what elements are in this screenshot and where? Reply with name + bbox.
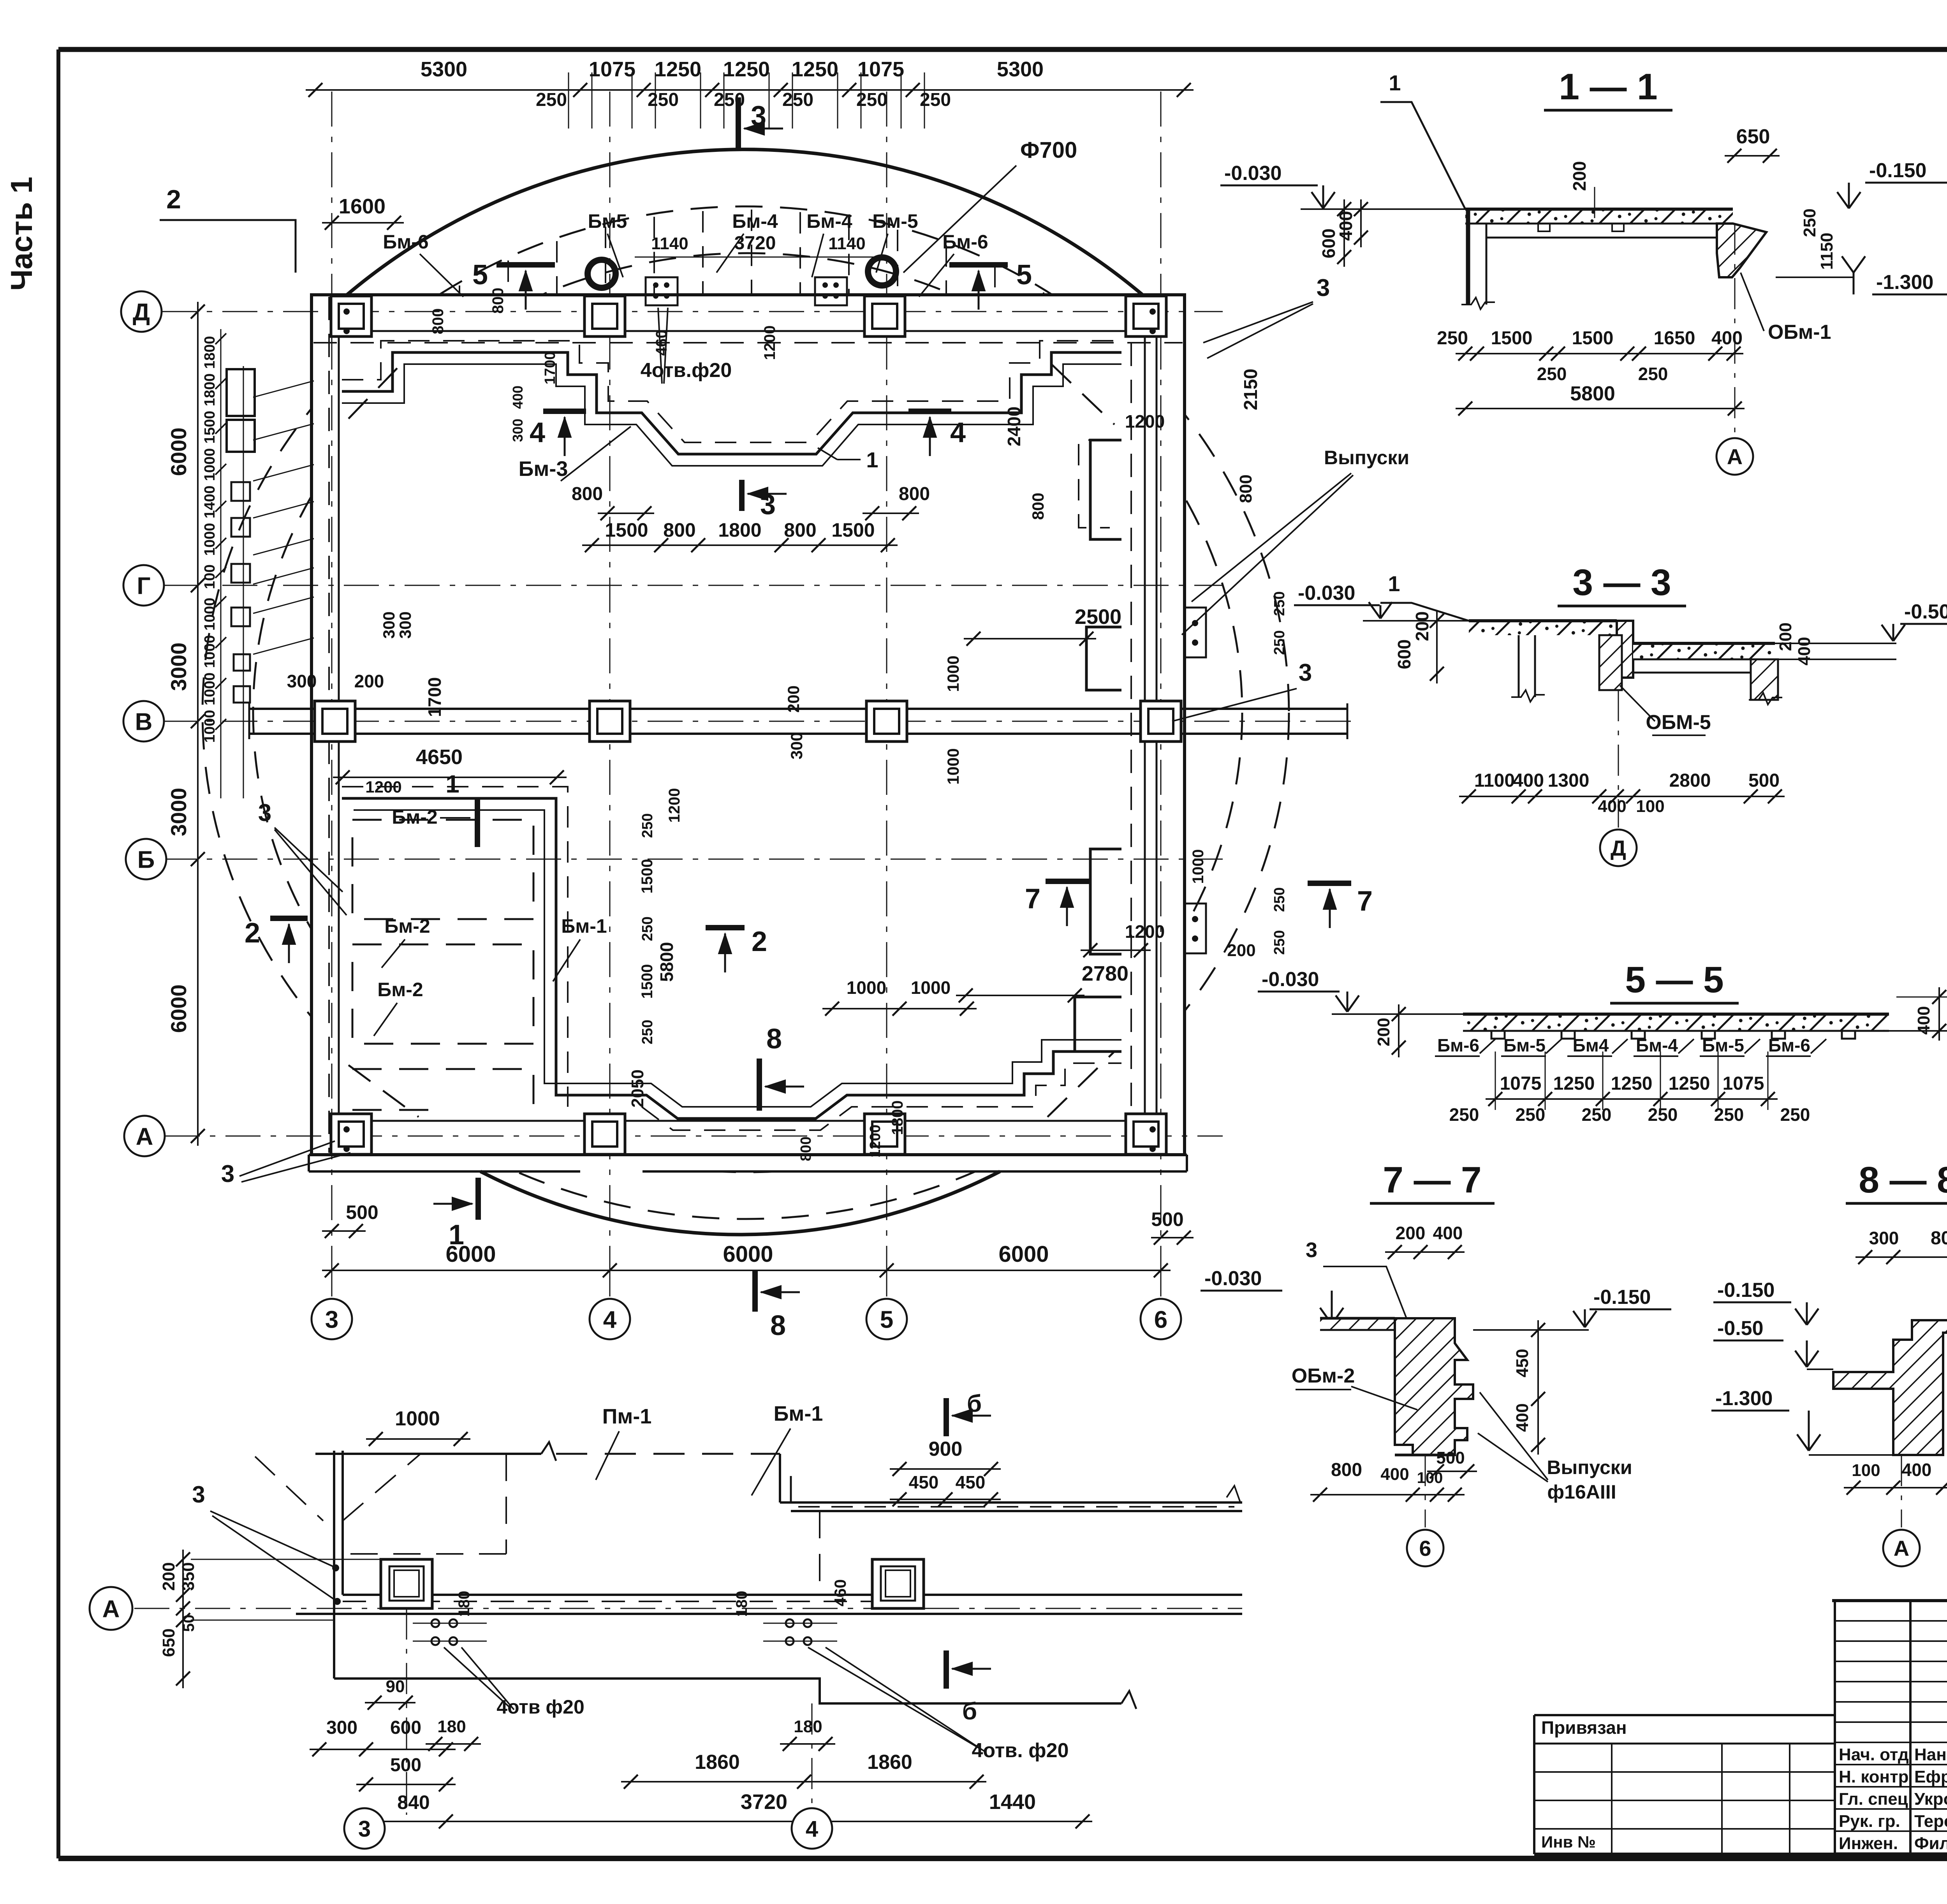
svg-text:1250: 1250 (1553, 1073, 1595, 1094)
svg-text:800: 800 (1931, 1228, 1947, 1249)
svg-text:3720: 3720 (741, 1790, 787, 1814)
plan: bottom foundation strip (309, 1154, 580, 1156)
plan: section flag 7 right (1308, 881, 1351, 886)
section 3-3 upper slab (1469, 621, 1617, 635)
svg-text:6000: 6000 (166, 985, 191, 1033)
svg-text:400: 400 (1711, 328, 1743, 349)
svg-text:650: 650 (159, 1628, 178, 1657)
svg-text:200: 200 (784, 685, 803, 713)
svg-text:200: 200 (354, 671, 384, 691)
svg-text:200: 200 (1374, 1018, 1393, 1046)
svg-text:3: 3 (258, 800, 271, 826)
svg-text:1200: 1200 (867, 1125, 884, 1158)
plan: section flag 2 middle (706, 925, 745, 930)
svg-text:8: 8 (766, 1023, 782, 1055)
section 7-7 main column ОБм-2 (1395, 1318, 1473, 1455)
detail: dashed inner outline (343, 1454, 506, 1554)
section 8-8 axis bubble А (1901, 1455, 1902, 1527)
svg-text:1500: 1500 (639, 964, 656, 999)
svg-text:500: 500 (1748, 770, 1780, 791)
svg-text:1200: 1200 (666, 788, 683, 823)
plan: column on axis Д at grid 6 (1126, 296, 1166, 336)
svg-text:1075: 1075 (1723, 1073, 1764, 1094)
svg-text:350: 350 (179, 1562, 198, 1590)
svg-text:1500: 1500 (1491, 328, 1533, 349)
plan: left wall niche leader ticks (253, 381, 314, 397)
svg-text:Бм-4: Бм-4 (806, 210, 852, 232)
svg-text:5800: 5800 (1570, 382, 1615, 405)
svg-text:250: 250 (1437, 328, 1468, 349)
svg-text:500: 500 (346, 1201, 378, 1223)
svg-text:1700: 1700 (542, 352, 558, 385)
section 5-5 slab with ribs (1463, 1014, 1889, 1031)
svg-text:1000: 1000 (202, 598, 218, 631)
svg-text:5: 5 (472, 259, 488, 291)
plan: axis bubble 6 (bottom) (1141, 1299, 1181, 1339)
svg-text:3: 3 (1317, 275, 1330, 301)
svg-text:Б: Б (137, 846, 155, 873)
svg-text:5300: 5300 (997, 58, 1044, 81)
svg-text:Привязан: Привязан (1541, 1717, 1627, 1738)
svg-text:-0.030: -0.030 (1224, 162, 1282, 185)
plan: axis bubble А (124, 1116, 165, 1156)
svg-text:Бм-2: Бм-2 (384, 915, 430, 937)
svg-text:4: 4 (603, 1306, 617, 1333)
svg-text:1860: 1860 (695, 1751, 740, 1774)
svg-text:5300: 5300 (421, 58, 467, 81)
detail: section flag б bottom (944, 1650, 949, 1689)
svg-text:8: 8 (770, 1310, 786, 1341)
svg-text:200: 200 (1396, 1223, 1426, 1243)
plan: section flag 5 top-left (496, 262, 555, 268)
svg-text:Ф700: Ф700 (1020, 137, 1077, 163)
svg-text:Бм-2: Бм-2 (392, 806, 437, 828)
svg-text:800: 800 (784, 519, 816, 541)
svg-text:1700: 1700 (424, 677, 445, 717)
plan: corner chamfer dashed lines (349, 1065, 419, 1117)
svg-text:1000: 1000 (202, 673, 218, 706)
svg-text:Д: Д (133, 299, 150, 326)
svg-text:А: А (1894, 1536, 1909, 1561)
plan: grid axis column 4 (609, 92, 611, 1303)
svg-text:Бм-3: Бм-3 (519, 457, 568, 481)
svg-text:4: 4 (530, 417, 545, 448)
plan: column on axis В at grid 4 (590, 701, 630, 742)
section 1-1 axis bubble А (1734, 224, 1736, 436)
plan: section flag 7 left (1046, 879, 1090, 884)
section 1-1 inner line (1486, 237, 1692, 239)
plan: grid axis row А (165, 1136, 1223, 1137)
plan: section flag 4 left (543, 409, 586, 414)
svg-text:250: 250 (639, 916, 656, 941)
svg-text:3720: 3720 (734, 233, 776, 254)
svg-text:100: 100 (1852, 1461, 1880, 1480)
plan: column on axis В at grid 3 (315, 701, 355, 742)
svg-text:250: 250 (1638, 364, 1668, 384)
svg-text:Бм-4: Бм-4 (732, 210, 778, 232)
svg-text:1150: 1150 (1817, 232, 1836, 269)
svg-text:5 — 5: 5 — 5 (1625, 959, 1723, 1000)
svg-text:6000: 6000 (998, 1242, 1049, 1267)
plan: right wall extra lines (1144, 333, 1146, 1122)
svg-text:Укропова: Укропова (1914, 1790, 1947, 1809)
svg-text:250: 250 (639, 1020, 656, 1044)
svg-text:Пм-1: Пм-1 (602, 1405, 652, 1428)
svg-text:300: 300 (787, 732, 806, 759)
svg-text:3: 3 (1299, 659, 1312, 686)
svg-text:5: 5 (880, 1306, 893, 1333)
svg-text:2150: 2150 (1241, 369, 1261, 410)
section 3-3 left legs (1518, 635, 1520, 697)
svg-text:1250: 1250 (723, 58, 770, 81)
section 1-1 bottom dimension chains (1456, 353, 1743, 354)
plan: right wall outside boxes with dots (1185, 608, 1206, 657)
svg-text:3: 3 (760, 489, 776, 520)
section 1-1 slab (1465, 209, 1733, 224)
title block: outer top line (1832, 1599, 1947, 1602)
svg-text:4: 4 (806, 1816, 818, 1842)
svg-text:800: 800 (899, 484, 930, 504)
detail: bottom edge with step (334, 1679, 1121, 1703)
svg-text:1000: 1000 (202, 710, 218, 743)
svg-text:Г: Г (137, 572, 150, 599)
plan: interior dim row 1500 800 1800 800 1500 (582, 544, 898, 546)
svg-text:4отв. ф20: 4отв. ф20 (972, 1739, 1069, 1762)
svg-text:1 — 1: 1 — 1 (1559, 66, 1657, 107)
detail: dashed diagonals top-left (255, 1457, 323, 1521)
svg-text:300: 300 (510, 419, 526, 442)
svg-text:1000: 1000 (944, 655, 962, 692)
title block: tall signature table (1834, 1601, 1836, 1854)
svg-text:Ефремова: Ефремова (1914, 1767, 1947, 1786)
plan: Бм-2 dashed floor panels bottom-left (352, 820, 533, 919)
svg-text:400: 400 (1795, 637, 1814, 665)
svg-text:840: 840 (397, 1791, 430, 1813)
svg-text:300: 300 (396, 611, 414, 639)
svg-text:7: 7 (1025, 883, 1040, 914)
plan: top wall inner dashed line (313, 342, 1183, 343)
svg-text:1800: 1800 (202, 336, 218, 369)
svg-text:1000: 1000 (944, 748, 962, 784)
plan: grid axis row Б (162, 859, 1223, 860)
plan: section flag 4 right (908, 409, 951, 414)
svg-text:Нанкаускас: Нанкаускас (1914, 1745, 1947, 1764)
svg-text:800: 800 (1029, 493, 1047, 520)
plan: axis bubble 4 (bottom) (590, 1299, 630, 1339)
svg-text:Филиппов: Филиппов (1914, 1834, 1947, 1853)
plan: grid axis row Д (162, 311, 1223, 312)
svg-text:Инжен.: Инжен. (1839, 1834, 1898, 1853)
svg-text:1500: 1500 (605, 519, 648, 541)
svg-text:1000: 1000 (847, 978, 886, 998)
svg-text:1400: 1400 (202, 486, 218, 519)
svg-text:250: 250 (639, 813, 656, 838)
plan: top dimension 250 row (568, 72, 569, 129)
svg-text:180: 180 (733, 1591, 750, 1617)
svg-text:1000: 1000 (202, 448, 218, 481)
svg-text:ОБм-2: ОБм-2 (1292, 1365, 1355, 1387)
detail: right column square (872, 1559, 924, 1608)
svg-text:1200: 1200 (365, 778, 401, 796)
svg-text:400: 400 (1513, 770, 1544, 791)
svg-text:2050: 2050 (628, 1069, 647, 1108)
svg-text:1600: 1600 (339, 195, 386, 218)
svg-text:3: 3 (325, 1306, 338, 1333)
plan: upper chamber inner wall ring (solid double line) (342, 352, 1121, 454)
svg-text:4650: 4650 (416, 745, 463, 769)
svg-text:1440: 1440 (989, 1790, 1036, 1814)
svg-text:1800: 1800 (718, 519, 761, 541)
svg-text:1500: 1500 (831, 519, 875, 541)
svg-text:200: 200 (1227, 941, 1255, 960)
svg-text:800: 800 (663, 519, 695, 541)
svg-text:100: 100 (1636, 797, 1664, 816)
svg-text:200: 200 (1412, 611, 1432, 641)
svg-text:А: А (1727, 444, 1743, 469)
detail: vertical wall at grid 3 (333, 1451, 335, 1679)
svg-text:Бм4: Бм4 (1573, 1035, 1609, 1055)
plan: lower chamber dashed companion (342, 787, 1121, 1130)
detail: bolt group right (786, 1619, 794, 1627)
svg-text:250: 250 (1449, 1104, 1479, 1125)
svg-text:А: А (136, 1123, 153, 1150)
detail: left column square (381, 1559, 432, 1608)
detail: axis bubbles 3 and 4 (364, 1808, 365, 1821)
svg-text:200: 200 (159, 1562, 178, 1590)
plan: axis bubble Б (126, 839, 166, 879)
svg-text:1: 1 (1389, 70, 1401, 95)
svg-text:Бм-1: Бм-1 (774, 1402, 823, 1425)
svg-text:180: 180 (456, 1591, 473, 1617)
svg-text:600: 600 (1394, 639, 1414, 669)
plan: middle wall on axis В (249, 708, 1347, 710)
plan: column on axis В at grid 5 (866, 701, 907, 742)
plan: grid axis row В (162, 721, 1359, 722)
svg-text:250: 250 (1271, 591, 1288, 616)
svg-text:800: 800 (1331, 1460, 1362, 1480)
plan: grid axis column 6 (1160, 92, 1162, 1303)
svg-text:Выпуски: Выпуски (1547, 1457, 1632, 1478)
svg-text:400: 400 (1433, 1223, 1463, 1243)
svg-text:1: 1 (445, 770, 459, 798)
svg-text:250: 250 (1780, 1104, 1810, 1125)
svg-text:180: 180 (437, 1717, 466, 1736)
svg-text:-1.300: -1.300 (1876, 271, 1933, 294)
svg-text:250: 250 (856, 90, 887, 110)
svg-text:Часть 1: Часть 1 (4, 177, 39, 291)
svg-text:5800: 5800 (657, 942, 677, 982)
svg-text:Бм-2: Бм-2 (377, 979, 423, 1000)
title block: left small table Привязан (1534, 1714, 1835, 1716)
svg-text:1000: 1000 (395, 1407, 440, 1430)
svg-text:450: 450 (909, 1472, 939, 1492)
section 3-3 step block (1617, 621, 1633, 678)
svg-text:1500: 1500 (202, 411, 218, 444)
plan: upper chamber outer dashed companion (342, 341, 1121, 442)
svg-text:500: 500 (1436, 1448, 1465, 1467)
svg-text:3: 3 (358, 1816, 371, 1842)
svg-text:1300: 1300 (1548, 770, 1590, 791)
section 3-3 axis bubble Д (1618, 690, 1619, 828)
svg-text:250: 250 (714, 90, 745, 110)
svg-text:Гл. спец: Гл. спец (1839, 1790, 1908, 1809)
svg-text:400: 400 (510, 386, 526, 409)
detail: section flag б top (944, 1398, 949, 1436)
svg-text:1860: 1860 (867, 1751, 912, 1774)
svg-text:450: 450 (1513, 1349, 1532, 1377)
svg-text:2780: 2780 (1082, 962, 1128, 985)
plan: column on axis Д at grid 4 (584, 296, 625, 336)
svg-text:300: 300 (287, 671, 317, 691)
plan: section flag 8 middle (757, 1059, 762, 1111)
svg-text:800: 800 (430, 308, 447, 335)
svg-text:250: 250 (1271, 630, 1288, 655)
svg-text:Бм-6: Бм-6 (1437, 1035, 1479, 1055)
svg-text:Д: Д (1611, 836, 1626, 860)
svg-text:400: 400 (1513, 1403, 1532, 1432)
svg-text:Бм-4: Бм-4 (1636, 1035, 1678, 1055)
svg-text:6000: 6000 (166, 428, 191, 476)
svg-text:1100: 1100 (1474, 770, 1515, 791)
svg-text:250: 250 (1516, 1104, 1546, 1125)
plan: column on axis А at grid 3 (331, 1114, 371, 1154)
svg-text:2: 2 (752, 926, 767, 957)
svg-text:1140: 1140 (828, 234, 865, 253)
svg-text:650: 650 (1736, 125, 1770, 148)
plan: bottom dimension chain 6000 x3 (322, 1270, 1171, 1271)
plan: section flag 5 top-right (949, 262, 1008, 268)
svg-text:6: 6 (1154, 1306, 1167, 1333)
plan: lower chamber inner ring with Бм-1 wall (342, 798, 1121, 1118)
svg-text:800: 800 (489, 288, 507, 314)
plan: dome rib dashed lines above top wall (459, 285, 460, 295)
svg-text:3000: 3000 (166, 788, 191, 837)
svg-text:Терентьев: Терентьев (1914, 1812, 1947, 1831)
plan: grid axis column 5 (886, 92, 887, 1303)
svg-text:1000: 1000 (202, 635, 218, 668)
svg-text:Инв №: Инв № (1541, 1833, 1596, 1851)
plan: axis bubble 5 (bottom) (866, 1299, 907, 1339)
svg-text:500: 500 (390, 1755, 421, 1775)
detail: Бм-1 wall top right (779, 1454, 781, 1502)
svg-text:2: 2 (245, 918, 260, 949)
plan: lower chamber right side steps (1090, 849, 1121, 954)
plan: column on axis Д at grid 5 (864, 296, 905, 336)
section 3-3 right column (1751, 659, 1778, 700)
plan: leader label 1 at top notch (837, 459, 861, 460)
plan: left dimension chain 6000/3000/3000/6000 (197, 302, 199, 1146)
svg-text:250: 250 (1648, 1104, 1678, 1125)
svg-text:В: В (135, 708, 153, 735)
svg-text:800: 800 (798, 1136, 814, 1161)
plan: left wall double line (328, 297, 330, 1153)
plan: section flag 3 middle (739, 480, 745, 511)
svg-text:90: 90 (386, 1677, 405, 1696)
svg-text:1075: 1075 (1500, 1073, 1542, 1094)
svg-text:1000: 1000 (1190, 849, 1207, 884)
svg-text:250: 250 (1537, 364, 1567, 384)
plan: column on axis А at grid 6 (1126, 1114, 1166, 1154)
section 3-3 bottom dims (1459, 796, 1785, 797)
svg-text:4отв.ф20: 4отв.ф20 (641, 359, 732, 382)
plan: outer tank circle solid arcs and dashed circles (339, 150, 1151, 302)
svg-text:180: 180 (794, 1717, 822, 1736)
svg-text:1500: 1500 (1572, 328, 1614, 349)
plan: column on axis А at grid 4 (584, 1114, 625, 1154)
svg-text:250: 250 (920, 90, 951, 110)
svg-text:400: 400 (1380, 1465, 1409, 1484)
plan: column on axis В at grid 6 (1141, 701, 1181, 742)
svg-text:1800: 1800 (889, 1101, 906, 1135)
svg-text:300: 300 (326, 1717, 357, 1738)
plan: axis bubble Д (121, 291, 162, 332)
svg-text:Бм-5: Бм-5 (872, 210, 918, 232)
svg-text:3: 3 (192, 1481, 205, 1508)
svg-text:Рук. гр.: Рук. гр. (1839, 1812, 1900, 1831)
svg-text:1140: 1140 (651, 234, 688, 253)
section 5-5 bottom dims (1486, 1098, 1778, 1100)
svg-text:1250: 1250 (1669, 1073, 1710, 1094)
svg-text:500: 500 (1151, 1208, 1183, 1230)
svg-text:8 — 8: 8 — 8 (1859, 1159, 1947, 1201)
svg-text:Бм-1: Бм-1 (561, 915, 607, 937)
svg-text:800: 800 (1236, 474, 1255, 503)
svg-text:1000: 1000 (911, 978, 951, 998)
svg-text:460: 460 (831, 1579, 849, 1606)
svg-text:б: б (967, 1390, 982, 1417)
svg-text:2: 2 (166, 185, 181, 214)
svg-text:900: 900 (929, 1438, 963, 1460)
svg-text:460: 460 (653, 330, 670, 356)
svg-text:-1.300: -1.300 (1715, 1387, 1773, 1410)
svg-text:7 — 7: 7 — 7 (1383, 1159, 1481, 1201)
svg-text:4: 4 (950, 417, 966, 448)
svg-text:-0.030: -0.030 (1204, 1267, 1262, 1290)
plan: right wall dot pairs near Д and А corners (1150, 308, 1156, 315)
svg-text:6: 6 (1419, 1536, 1431, 1561)
svg-text:-0.150: -0.150 (1869, 159, 1926, 182)
svg-text:2800: 2800 (1669, 770, 1711, 791)
plan: Ø700 pipe sleeve left (588, 260, 616, 288)
svg-text:1200: 1200 (761, 326, 778, 360)
svg-text:1075: 1075 (589, 58, 636, 81)
plan: anchor bolt group right (815, 277, 847, 305)
svg-text:Бм-6: Бм-6 (942, 231, 988, 253)
svg-text:250: 250 (1800, 208, 1819, 237)
svg-text:-0.150: -0.150 (1717, 1279, 1774, 1302)
svg-text:Бм-5: Бм-5 (1503, 1035, 1546, 1055)
svg-text:-0.030: -0.030 (1298, 582, 1355, 604)
svg-text:3000: 3000 (166, 643, 191, 691)
svg-text:100: 100 (202, 564, 218, 589)
svg-text:250: 250 (1582, 1104, 1612, 1125)
svg-text:600: 600 (390, 1717, 421, 1738)
svg-text:800: 800 (572, 484, 603, 504)
svg-text:-0.150: -0.150 (1593, 1286, 1651, 1309)
svg-text:Н. контр: Н. контр (1839, 1767, 1909, 1786)
svg-text:7: 7 (1357, 886, 1373, 917)
plan: axis bubble В (123, 701, 164, 742)
section 1-1 left wall (1466, 209, 1470, 305)
svg-text:250: 250 (648, 90, 679, 110)
plan: section flag 3 top (736, 97, 741, 149)
svg-text:6000: 6000 (445, 1242, 496, 1267)
plan: grid axis column 3 (331, 92, 333, 1303)
plan: section flag 8 bottom (752, 1270, 758, 1312)
svg-text:ОБм-1: ОБм-1 (1768, 321, 1831, 343)
svg-text:300: 300 (380, 611, 398, 639)
section 7-7 left flange (1320, 1318, 1395, 1330)
